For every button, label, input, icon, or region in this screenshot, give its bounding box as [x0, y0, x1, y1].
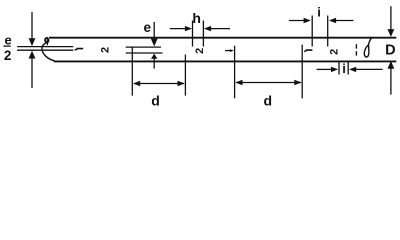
svg-text:e: e — [143, 20, 151, 35]
svg-text:i: i — [317, 5, 321, 20]
svg-text:2: 2 — [328, 49, 340, 55]
svg-text:i: i — [342, 61, 346, 76]
svg-text:2: 2 — [100, 47, 112, 53]
svg-text:d: d — [264, 92, 273, 108]
svg-text:D: D — [385, 43, 395, 59]
svg-text:h: h — [192, 10, 201, 26]
svg-text:e: e — [4, 32, 11, 47]
svg-text:2: 2 — [194, 48, 206, 54]
svg-text:d: d — [151, 92, 160, 108]
svg-text:2: 2 — [4, 48, 12, 63]
